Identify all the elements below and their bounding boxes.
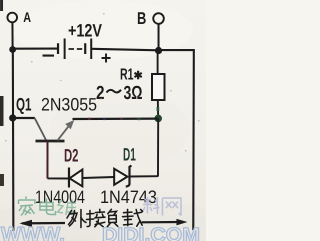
svg-text:2N3055: 2N3055 [41,94,97,114]
watermark char 料 (lavender outline) [143,197,160,214]
battery plus sign [102,53,111,62]
wire D1 to right [130,175,158,177]
battery GB plates [58,38,91,59]
wire R1 to emitter node [157,100,159,118]
wire left rail [12,49,15,231]
wire B down [158,24,160,51]
scan smudge left edge top [0,0,3,11]
resistor R1 [152,74,165,100]
wire top rail to battery [13,48,57,50]
svg-text:WWW.: WWW. [1,223,65,241]
svg-text:D2: D2 [64,145,79,165]
wire emitter junction down [157,119,159,177]
diode D1 zener bar [126,166,132,187]
terminal B [153,13,164,24]
transistor Q1 emitter arrow [65,120,74,129]
diode D2 cathode bar [68,167,70,187]
watermark char 家 (green outline) [18,196,35,215]
wire base to D2 [47,177,68,179]
transistor Q1 collector lead [13,117,35,119]
node top-right junction [155,47,162,54]
svg-text:✱: ✱ [134,70,143,82]
label 外接负载 (hand-drawn) [67,209,143,227]
diode D1 triangle [114,169,127,185]
wire top rail to right corner [159,49,195,51]
node top-left junction [9,46,16,53]
watermark char 网 (lavender outline) [162,198,181,216]
watermark char 维 partial (green outline) [57,199,76,215]
svg-text:DIDI.COM: DIDI.COM [102,224,200,241]
svg-text:3Ω: 3Ω [124,83,143,104]
wire B junction to R1 [157,51,159,74]
terminal A [7,13,17,23]
paper noise dots [5,13,200,152]
battery GB minus sign [43,54,54,56]
wire D2 to D1 [82,177,114,178]
wire emitter to junction [73,117,159,120]
wire right rail [192,49,195,230]
wire top rail battery to B [91,49,158,51]
load arrow right [141,219,187,225]
svg-text:Q1: Q1 [16,94,32,114]
svg-text:2: 2 [96,83,105,104]
transistor Q1 base bar [35,140,64,143]
svg-text:1N4004: 1N4004 [35,187,85,207]
svg-text:+12V: +12V [68,20,102,40]
svg-text:D1: D1 [123,145,136,165]
node emitter junction (green tinted) [154,115,162,123]
svg-text:A: A [23,9,31,25]
load arrow left [19,220,65,227]
node collector junction [9,114,16,121]
watermark char 电 (green outline) [40,198,56,214]
diode D2 triangle [70,169,83,186]
svg-text:B: B [137,9,146,28]
wire A down [11,22,13,49]
svg-text:R1: R1 [120,67,134,84]
scan smudge left edge middle [0,96,4,126]
scan smudge left edge lower [0,174,4,186]
wire base lead down [46,141,48,179]
transistor Q1 collector diagonal [35,118,46,140]
watermark speckles on wire [88,117,141,120]
transistor Q1 emitter diagonal [57,124,70,140]
